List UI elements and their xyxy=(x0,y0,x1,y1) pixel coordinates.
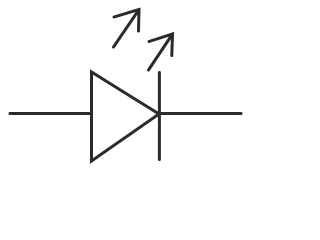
wire anode lead (left) xyxy=(10,112,92,115)
diode triangle (anode) xyxy=(92,72,160,161)
cathode bar xyxy=(158,73,161,160)
emission arrow 2 (lower right) xyxy=(149,34,173,70)
emission arrow 1 (upper left) xyxy=(114,10,140,48)
wire cathode lead (right) xyxy=(159,112,241,115)
